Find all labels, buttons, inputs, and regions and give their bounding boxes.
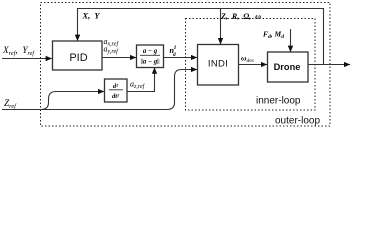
wire: Drone output out of loops: [308, 64, 350, 66]
wire: INDI output to Drone: [239, 64, 268, 66]
wire: Zref line across bottom, up into INDI second input: [2, 70, 197, 110]
wire: Fd, Md arrow into Drone top: [290, 29, 292, 52]
svg-text:Z, R, Ω, ω: Z, R, Ω, ω: [220, 12, 261, 21]
block Drone: [268, 52, 309, 82]
inner-loop dashed box: [186, 19, 316, 111]
wire: PID output to a-g block: [102, 57, 136, 59]
wire: d2/dt2 output up into a-g block bottom: [127, 68, 155, 92]
svg-text:a − g: a − g: [143, 48, 158, 55]
wire: feedback branch down into INDI: [220, 9, 222, 45]
svg-text:Drone: Drone: [274, 62, 301, 72]
svg-text:inner-loop: inner-loop: [256, 96, 301, 107]
svg-text:INDI: INDI: [208, 59, 228, 70]
wire: Xref,Yref into PID: [2, 58, 52, 60]
block PID: [53, 41, 103, 70]
block (a-g)/||a-g||: [137, 45, 164, 68]
block d2/dt2: [105, 79, 128, 102]
outer-loop dashed box: [41, 3, 331, 127]
wire: feedback line from output junction to top, across, down into PID: [78, 9, 324, 65]
svg-text:PID: PID: [69, 52, 87, 64]
wire: Zref branch up into d2/dt2: [41, 92, 104, 110]
wire: a-g output to INDI: [164, 57, 197, 59]
svg-text:outer-loop: outer-loop: [275, 116, 320, 127]
block INDI: [198, 45, 239, 86]
svg-text:dt²: dt²: [112, 93, 120, 100]
svg-text:X, Y: X, Y: [82, 11, 101, 21]
svg-text:a − g: a − g: [143, 58, 158, 65]
svg-text:Fd, Md: Fd, Md: [263, 30, 284, 40]
